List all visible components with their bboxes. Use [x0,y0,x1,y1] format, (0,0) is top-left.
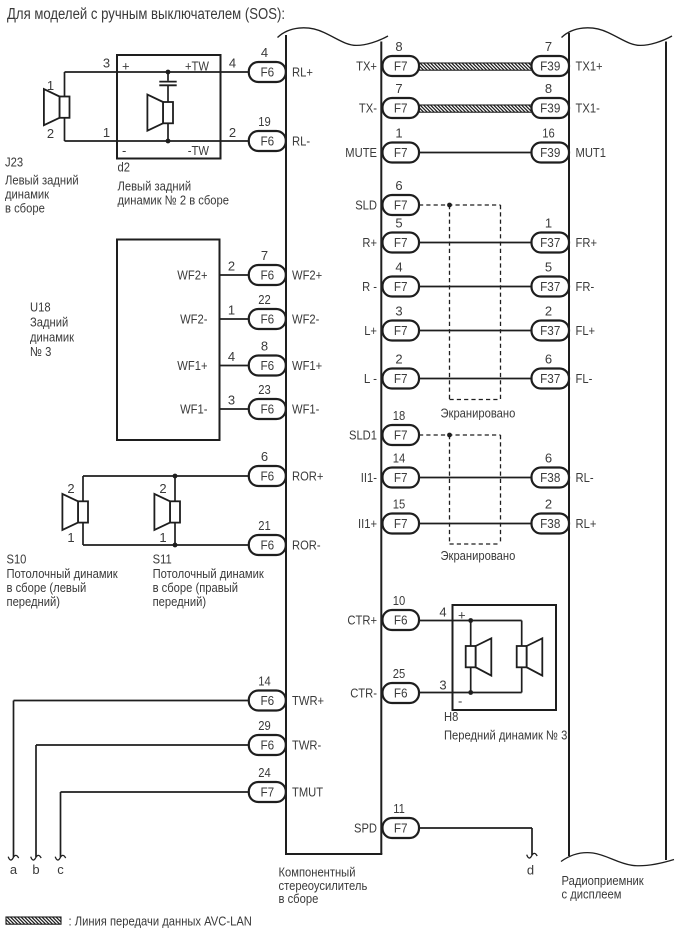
svg-text:Потолочный динамик: Потолочный динамик [153,566,264,581]
svg-text:WF2+: WF2+ [292,268,322,283]
connector F6 pin 10 net CTR+ [347,593,419,630]
svg-text:передний): передний) [153,594,207,609]
svg-text:F7: F7 [394,279,408,294]
svg-text:2: 2 [47,126,54,141]
connector F6 pin 19 net RL- [249,114,310,151]
wire U18 pin 4 (WF1+) [177,349,249,373]
connector F7 pin 8 net TX+ [356,39,419,76]
svg-text:передний): передний) [7,594,61,609]
wire TWR+ to terminal a [14,701,249,858]
svg-text:WF1+: WF1+ [292,358,322,373]
svg-text:5: 5 [545,259,552,274]
svg-text:№ 3: № 3 [30,344,51,359]
svg-text:TX+: TX+ [356,59,377,74]
svg-text:L+: L+ [364,323,377,338]
svg-text:2: 2 [159,481,166,496]
connector F39 pin 8 net TX1- [532,81,600,118]
junction H8 top [468,618,473,623]
svg-text:WF2-: WF2- [292,312,319,327]
svg-text:2: 2 [395,351,402,366]
amplifier connector bus (Компонентный стереоусилитель) [278,28,389,906]
shield drain wire SLD1 (dashed) [419,434,501,436]
svg-text:2: 2 [67,481,74,496]
svg-text:F6: F6 [260,134,274,149]
connector F6 pin 14 net TWR+ [249,673,324,710]
svg-text:3: 3 [228,393,235,408]
svg-text:FR+: FR+ [576,235,598,250]
svg-text:1: 1 [395,125,402,140]
svg-text:WF1+: WF1+ [177,358,207,373]
svg-text:WF1-: WF1- [180,402,207,417]
svg-text:8: 8 [395,39,402,54]
svg-text:ROR-: ROR- [292,538,321,553]
svg-text:Потолочный динамик: Потолочный динамик [7,566,118,581]
svg-text:1: 1 [159,530,166,545]
terminal d [527,853,538,877]
speaker S10 (Потолочный динамик в сборе (левый передний)) [7,476,118,609]
svg-text:d: d [527,863,534,878]
svg-text:U18: U18 [30,300,51,315]
svg-text:7: 7 [395,81,402,96]
wire TMUT to terminal c [61,792,249,857]
title [7,6,285,23]
connector F37 pin 5 net FR- [532,259,595,296]
svg-text:SLD1: SLD1 [349,428,377,443]
svg-text:4: 4 [261,45,268,60]
svg-text:c: c [57,862,64,877]
speaker H8 left [466,638,492,675]
svg-text:RL-: RL- [292,134,310,149]
svg-text:23: 23 [258,382,271,397]
svg-text:11: 11 [393,801,405,816]
svg-text:+: + [458,608,466,623]
wire CTR- into H8 [419,692,522,694]
svg-text:16: 16 [542,125,555,140]
connector F7 pin 11 net SPD [354,801,419,838]
junction S11 top [173,474,178,479]
svg-text:II1-: II1- [361,470,377,485]
svg-text:F6: F6 [260,738,274,753]
svg-text:8: 8 [545,81,552,96]
wire U18 pin 1 (WF2-) [180,303,249,327]
svg-text:F6: F6 [394,613,408,628]
svg-text:1: 1 [545,215,552,230]
svg-text:1: 1 [103,125,110,140]
wire L- to FL- [419,378,532,380]
svg-text:FL+: FL+ [576,323,596,338]
radio bus (Радиоприемник с дисплеем) [561,28,674,902]
svg-text:F39: F39 [540,145,560,160]
shield box around II1 wires [450,435,501,544]
svg-text:10: 10 [393,593,406,608]
wire MUTE to MUT1 [419,152,532,154]
svg-text:1: 1 [228,303,235,318]
shield drain wire SLD (dashed) [419,204,501,206]
svg-text:Левый задний: Левый задний [5,173,79,188]
connector F7 pin 5 net R+ [362,215,419,252]
terminal c [55,855,65,877]
wire U18 pin 2 (WF2+) [177,259,249,283]
svg-text:2: 2 [228,259,235,274]
svg-text:29: 29 [258,718,271,733]
svg-text:в сборе (левый: в сборе (левый [7,580,87,595]
svg-text:F6: F6 [260,693,274,708]
svg-text:F7: F7 [394,59,408,74]
svg-text:F7: F7 [394,821,408,836]
svg-text:3: 3 [439,678,446,693]
svg-text:в сборе: в сборе [279,891,319,906]
svg-text:F7: F7 [394,101,408,116]
wire R+ to FR+ [419,242,532,244]
wire R- to FR- [419,286,532,288]
svg-text:H8: H8 [444,709,458,724]
svg-text:2: 2 [545,496,552,511]
svg-text:F6: F6 [260,538,274,553]
connector F37 pin 2 net FL+ [532,303,596,340]
connector F6 pin 25 net CTR- [350,666,419,703]
svg-text:F7: F7 [260,785,274,800]
svg-text:TX1+: TX1+ [576,59,603,74]
svg-text:F7: F7 [394,470,408,485]
svg-text:динамик: динамик [30,330,74,345]
connector F7 pin 24 net TMUT [249,765,323,802]
svg-text:динамик: динамик [5,187,49,202]
connector F7 pin 7 net TX- [359,81,419,118]
svg-text:WF2+: WF2+ [177,268,207,283]
svg-text:19: 19 [258,114,271,129]
junction S11 bottom [173,543,178,548]
svg-text:F6: F6 [260,268,274,283]
connector F7 pin 4 net R - [362,259,419,296]
wire TWR- to terminal b [36,745,249,857]
svg-text:S10: S10 [7,552,27,567]
capacitor (d2 tweeter crossover) [159,72,176,102]
svg-text:3: 3 [103,56,110,71]
svg-text:6: 6 [261,449,268,464]
wire CTR+ into H8 [419,620,522,622]
svg-text:4: 4 [228,349,235,364]
speaker box H8 (Передний динамик № 3) [439,605,567,743]
connector F6 pin 4 net RL+ [249,45,313,82]
svg-text:+: + [122,59,130,74]
svg-text:1: 1 [47,78,54,93]
speaker S11 (Потолочный динамик в сборе (правый передний)) [153,476,264,609]
svg-text:TX-: TX- [359,101,377,116]
speaker box U18 (Задний динамик № 3) [30,240,220,441]
svg-text:F38: F38 [540,470,560,485]
svg-text:21: 21 [258,518,271,533]
svg-text:Для моделей с ручным выключате: Для моделей с ручным выключателем (SOS): [7,6,285,23]
svg-text:FL-: FL- [576,371,593,386]
speaker H8 right [517,638,543,675]
svg-text:в сборе: в сборе [5,201,45,216]
junction on SLD wire [447,203,452,208]
svg-text:RL+: RL+ [292,65,313,80]
connector F37 pin 1 net FR+ [532,215,598,252]
svg-text:2: 2 [229,125,236,140]
svg-text:F7: F7 [394,235,408,250]
svg-text:RL+: RL+ [576,516,597,531]
connector F6 pin 21 net ROR- [249,518,321,555]
svg-text:Задний: Задний [30,315,68,330]
svg-text:F6: F6 [394,686,408,701]
svg-text:-: - [122,143,126,158]
svg-text:25: 25 [393,666,406,681]
connector F6 pin 29 net TWR- [249,718,321,755]
connector F7 pin 3 net L+ [364,303,419,340]
junction H8 bottom [468,690,473,695]
svg-text:F7: F7 [394,516,408,531]
connector F6 pin 23 net WF1- [249,382,320,419]
wire II1- to RL- [419,477,532,479]
svg-text:FR-: FR- [576,279,595,294]
svg-text:II1+: II1+ [358,516,377,531]
svg-text:3: 3 [395,303,402,318]
svg-text:b: b [32,862,39,877]
speaker d2 tweeter symbol [147,95,173,141]
svg-text:динамик № 2 в сборе: динамик № 2 в сборе [118,193,230,208]
svg-text:4: 4 [395,259,402,274]
AVC-LAN data line TX+ to TX1+ [419,63,532,70]
svg-text:R+: R+ [362,235,377,250]
svg-text:6: 6 [545,351,552,366]
wire SPD to terminal d [419,828,532,855]
connector F6 pin 8 net WF1+ [249,338,322,375]
wire ROR+ [83,475,249,477]
svg-text:8: 8 [261,338,268,353]
terminal a [8,855,18,877]
wire RL- from J23 through d2 to connector [65,140,249,142]
svg-text:22: 22 [258,292,271,307]
svg-text:4: 4 [229,56,236,71]
svg-text:CTR+: CTR+ [347,613,377,628]
svg-text:14: 14 [258,673,271,688]
connector F7 pin 14 net II1- [361,450,419,487]
connector F37 pin 6 net FL- [532,351,593,388]
connector F39 pin 16 net MUT1 [532,125,607,162]
svg-text:S11: S11 [153,552,172,567]
svg-text:F6: F6 [260,65,274,80]
svg-text:F39: F39 [540,101,560,116]
svg-text:7: 7 [261,248,268,263]
connector F6 pin 22 net WF2- [249,292,320,329]
AVC-LAN data line TX- to TX1- [419,105,532,112]
connector F6 pin 7 net WF2+ [249,248,322,285]
svg-text:F7: F7 [394,371,408,386]
wire II1+ to RL+ [419,523,532,525]
svg-text:F7: F7 [394,198,408,213]
svg-text:F7: F7 [394,145,408,160]
svg-text:TWR-: TWR- [292,738,321,753]
svg-text:F7: F7 [394,428,408,443]
svg-text:6: 6 [395,178,402,193]
junction d2 bottom [166,139,171,144]
connector F39 pin 7 net TX1+ [532,39,603,76]
svg-text:TWR+: TWR+ [292,693,324,708]
svg-text:F37: F37 [540,371,560,386]
wire H8 internal verticals [471,621,522,693]
svg-text:+TW: +TW [185,59,210,74]
connector F7 pin 6 net SLD [355,178,419,215]
svg-text:J23: J23 [5,155,23,170]
svg-text:SLD: SLD [355,198,377,213]
svg-text:: Линия передачи данных AVC-LA: : Линия передачи данных AVC-LAN [69,914,252,929]
svg-text:WF1-: WF1- [292,402,319,417]
label Экранировано (lower) [441,548,516,563]
svg-text:F7: F7 [394,323,408,338]
svg-text:MUTE: MUTE [345,145,377,160]
shield box around R/L wires [450,205,501,400]
svg-text:CTR-: CTR- [350,686,377,701]
svg-text:F37: F37 [540,235,560,250]
svg-text:L -: L - [364,371,377,386]
svg-text:R -: R - [362,279,377,294]
svg-text:1: 1 [67,530,74,545]
svg-text:SPD: SPD [354,821,377,836]
svg-text:TMUT: TMUT [292,785,323,800]
svg-text:-TW: -TW [188,143,210,158]
connector F7 pin 2 net L - [364,351,419,388]
svg-text:MUT1: MUT1 [576,145,607,160]
svg-text:Передний динамик № 3: Передний динамик № 3 [444,728,567,743]
svg-text:4: 4 [439,605,446,620]
speaker J23 (Левый задний динамик в сборе) [5,72,79,216]
svg-text:a: a [10,862,18,877]
svg-text:5: 5 [395,215,402,230]
connector F7 pin 15 net II1+ [358,496,419,533]
terminal b [31,855,42,877]
label Экранировано (upper) [441,406,516,421]
svg-text:WF2-: WF2- [180,312,207,327]
svg-text:F39: F39 [540,59,560,74]
wire L+ to FL+ [419,330,532,332]
connector F6 pin 6 net ROR+ [249,449,324,486]
svg-text:ROR+: ROR+ [292,469,323,484]
junction d2 top [166,70,171,75]
svg-text:-: - [458,694,462,709]
svg-text:24: 24 [258,765,271,780]
legend AVC-LAN data line [6,914,252,929]
svg-text:F37: F37 [540,279,560,294]
svg-text:F38: F38 [540,516,560,531]
wire ROR- [83,544,249,546]
svg-text:F6: F6 [260,402,274,417]
wire RL+ from J23 through d2 to connector [65,71,249,73]
connector F38 pin 6 net RL- [532,450,594,487]
svg-text:с дисплеем: с дисплеем [562,887,622,902]
svg-text:RL-: RL- [576,470,594,485]
svg-text:Экранировано: Экранировано [441,406,516,421]
svg-text:TX1-: TX1- [576,101,600,116]
connector F7 pin 1 net MUTE [345,125,419,162]
svg-text:F37: F37 [540,323,560,338]
connector F38 pin 2 net RL+ [532,496,597,533]
speaker box d2 (Левый задний динамик № 2 в сборе) [103,55,236,208]
svg-text:7: 7 [545,39,552,54]
svg-text:d2: d2 [118,160,131,175]
svg-text:18: 18 [393,408,406,423]
junction on SLD1 wire [447,433,452,438]
svg-text:14: 14 [393,450,406,465]
svg-text:в сборе (правый: в сборе (правый [153,580,238,595]
svg-text:2: 2 [545,303,552,318]
svg-text:Левый задний: Левый задний [118,179,192,194]
svg-text:6: 6 [545,450,552,465]
svg-text:F6: F6 [260,469,274,484]
svg-text:F6: F6 [260,358,274,373]
svg-text:F6: F6 [260,312,274,327]
wire U18 pin 3 (WF1-) [180,393,249,417]
svg-text:Экранировано: Экранировано [441,548,516,563]
connector F7 pin 18 net SLD1 [349,408,419,445]
svg-text:15: 15 [393,496,406,511]
